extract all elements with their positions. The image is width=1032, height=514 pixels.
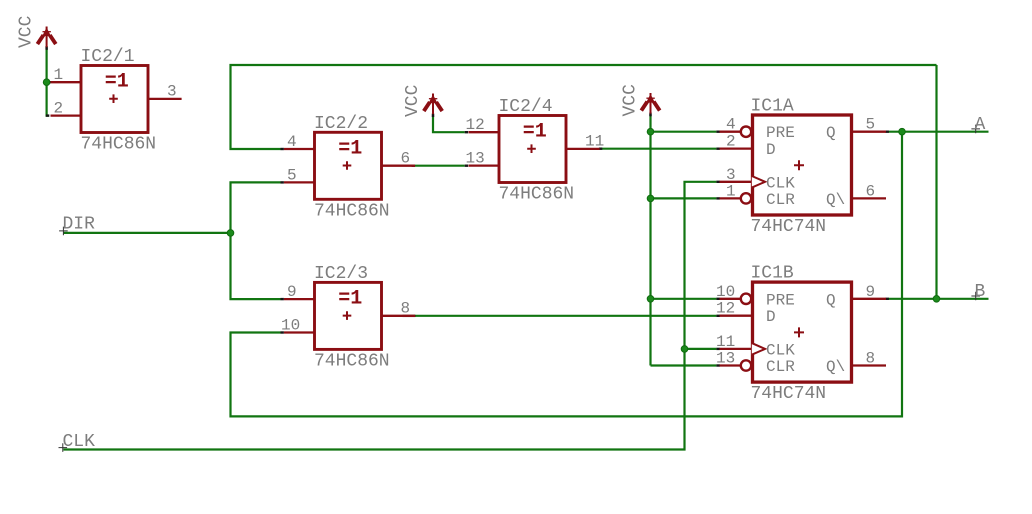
svg-text:IC2/4: IC2/4 [499, 97, 553, 117]
wire net VCC3 to IC1A CLR [651, 197, 717, 199]
D flip-flop IC1A (74HC74N) [753, 115, 852, 215]
pin stub pin 5 Q of IC1A [852, 131, 887, 133]
svg-text:=1: =1 [105, 71, 129, 94]
wire joint IC2/1 pin 1 joint [48, 81, 51, 83]
wire net from IC2/4 pin 11 to IC1A D [599, 148, 716, 150]
wire joint VCC2 wire top end [432, 114, 434, 117]
svg-text:6: 6 [866, 182, 876, 200]
clock wedge on CLK pin of IC1B [752, 343, 765, 355]
wire net B output segment to label B [889, 298, 989, 300]
xor mark + of IC2/1 [109, 94, 118, 103]
power symbol VCC supply 3 [641, 93, 659, 116]
wire joint IC2/4 pin 11 joint [599, 147, 602, 149]
inversion bubble on PRE pin of IC1B [741, 294, 751, 304]
pin stub pin 9 Q of IC1B [852, 298, 887, 300]
inversion bubble on CLR pin of IC1B [741, 360, 751, 370]
pin stub pin 4 of IC2/2 [284, 148, 315, 150]
svg-text:2: 2 [726, 133, 736, 151]
xor mark + of IC2/2 [343, 161, 352, 170]
svg-text:5: 5 [287, 166, 297, 184]
svg-text:11: 11 [585, 133, 604, 151]
pin stub pin 10 PRE of IC1B [720, 298, 742, 300]
pin stub pin 3 CLK of IC1A [720, 181, 753, 183]
pin stub pin 9 of IC2/3 [284, 298, 315, 300]
wire joint IC1A pin CLR joint [716, 197, 719, 199]
svg-text:12: 12 [466, 116, 485, 134]
label origin cross of net label B [971, 292, 980, 301]
svg-text:CLR: CLR [766, 191, 795, 209]
centre mark + of IC1B [794, 327, 804, 337]
pin stub pin 11 CLK of IC1B [720, 348, 753, 350]
wire net VCC1 vertical from VCC symbol to IC2/1 pins [47, 49, 49, 116]
svg-text:74HC86N: 74HC86N [314, 351, 390, 371]
svg-text:74HC86N: 74HC86N [499, 185, 575, 205]
svg-text:DIR: DIR [63, 215, 96, 235]
wire joint IC1A pin Q joint [886, 130, 889, 132]
wire net CLK branch to IC1B CLK [685, 348, 717, 350]
pin stub pin 13 CLR of IC1B [720, 364, 742, 366]
svg-text:3: 3 [726, 166, 736, 184]
svg-text:Q: Q [826, 124, 836, 142]
wire net from IC2/3 pin 8 to IC1B D [415, 315, 717, 317]
wire net CLK from label up to IC1A CLK [63, 182, 716, 450]
pin stub pin 1 CLR of IC1A [720, 197, 742, 199]
svg-text:12: 12 [716, 300, 735, 318]
svg-text:5: 5 [866, 116, 876, 134]
pin stub pin 11 of IC2/4 [566, 148, 600, 150]
svg-text:9: 9 [287, 283, 297, 301]
wire net from IC2/2 pin 6 to IC2/4 pin 13 [415, 165, 465, 167]
junction node A at IC1A Q [899, 128, 906, 135]
inversion bubble on CLR pin of IC1A [741, 193, 751, 203]
svg-text:VCC: VCC [17, 15, 37, 48]
svg-text:1: 1 [726, 182, 736, 200]
svg-text:Q\: Q\ [826, 358, 845, 376]
wire net B: top bus from feedback to IC2/2 pin 4 [231, 65, 937, 149]
svg-text:IC2/1: IC2/1 [81, 47, 135, 67]
power symbol VCC supply 1 [37, 27, 55, 50]
svg-text:B: B [975, 282, 986, 302]
svg-text:D: D [766, 141, 776, 159]
svg-text:IC1A: IC1A [751, 97, 794, 117]
wire joint IC1B pin CLK joint [716, 348, 719, 350]
svg-text:13: 13 [716, 350, 735, 368]
pin stub pin 4 PRE of IC1A [720, 131, 742, 133]
pin stub pin 10 of IC2/3 [284, 331, 315, 333]
xor mark + of IC2/4 [527, 144, 536, 153]
pin stub pin 8 Q\ of IC1B [852, 364, 887, 366]
svg-text:2: 2 [54, 100, 64, 118]
wire net B feedback vertical [935, 65, 937, 299]
wire net DIR horizontal from label to junction [63, 232, 230, 234]
wire joint IC2/3 pin 8 (overlap) [403, 315, 416, 317]
svg-text:IC2/2: IC2/2 [314, 114, 368, 134]
wire net VCC3 vertical [649, 115, 651, 365]
wire joint IC1B pin PRE joint [716, 298, 719, 300]
D flip-flop IC1B (74HC74N) [753, 282, 852, 382]
svg-text:74HC74N: 74HC74N [751, 384, 827, 404]
svg-text:CLK: CLK [766, 341, 795, 359]
wire joint IC2/2 pin 5 joint [281, 181, 284, 183]
svg-text:8: 8 [401, 300, 411, 318]
svg-text:D: D [766, 308, 776, 326]
inversion bubble on PRE pin of IC1A [741, 127, 751, 137]
wire joint IC2/2 pin 4 joint [281, 148, 284, 150]
wire joint IC2/4 pin 12 joint [465, 131, 468, 133]
wire joint IC1B pin Q joint [886, 298, 889, 300]
svg-text:=1: =1 [523, 121, 547, 144]
svg-text:74HC74N: 74HC74N [751, 217, 827, 237]
pin stub pin 6 Q\ of IC1A [852, 197, 887, 199]
svg-text:=1: =1 [338, 138, 362, 161]
svg-text:8: 8 [866, 350, 876, 368]
power symbol VCC supply 2 [424, 94, 442, 117]
label origin cross of net label DIR [59, 227, 68, 236]
junction node VCC3 at IC1B PRE [647, 296, 654, 303]
pin stub pin 6 of IC2/2 [382, 165, 416, 167]
svg-text:CLR: CLR [766, 358, 795, 376]
junction node VCC1 at IC2/1 pin 1 [43, 79, 50, 86]
junction node VCC3 at IC1A CLR [647, 195, 654, 202]
pin stub pin 13 of IC2/4 [469, 164, 500, 166]
svg-text:PRE: PRE [766, 124, 795, 142]
svg-text:13: 13 [466, 150, 485, 168]
wire net DIR to IC2/3 pin 9 [231, 233, 281, 299]
XOR gate IC2/2 (74HC86N) [315, 132, 382, 199]
wire joint IC1A pin D joint [716, 147, 719, 149]
svg-text:VCC: VCC [403, 84, 423, 117]
label origin cross of net label A [971, 125, 980, 134]
svg-text:Q\: Q\ [826, 191, 845, 209]
wire net A output segment to label A [889, 131, 989, 133]
svg-text:VCC: VCC [621, 84, 641, 117]
svg-text:IC1B: IC1B [751, 264, 794, 284]
svg-text:11: 11 [716, 333, 735, 351]
clock wedge on CLK pin of IC1A [752, 176, 765, 188]
svg-text:1: 1 [54, 66, 64, 84]
wire joint IC1B pin D joint [716, 315, 719, 317]
junction node B at feedback [933, 296, 940, 303]
xor mark + of IC2/3 [343, 311, 352, 320]
svg-text:PRE: PRE [766, 291, 795, 309]
wire net VCC2 from symbol to IC2/4 pin 12 [433, 116, 465, 132]
wire joint IC2/4 pin 13 joint [465, 164, 468, 166]
pin stub pin 3 of IC2/1 [148, 98, 182, 100]
wire joint IC1B pin CLR joint [716, 364, 719, 366]
svg-text:4: 4 [287, 133, 297, 151]
wire net VCC3 to IC1B CLR [651, 364, 717, 366]
junction node VCC3 at IC1A PRE [647, 128, 654, 135]
wire net VCC3 to IC1B PRE [651, 298, 717, 300]
wire net A feedback: IC1A Q down, across, up to IC2/3 pin 10 [231, 132, 903, 417]
svg-text:IC2/3: IC2/3 [314, 264, 368, 284]
svg-text:4: 4 [726, 116, 736, 134]
pin stub pin 2 D of IC1A [720, 147, 753, 149]
svg-text:3: 3 [167, 83, 177, 101]
pin stub pin 5 of IC2/2 [284, 181, 315, 183]
junction node CLK at IC1B CLK [681, 346, 688, 353]
wire joint VCC3 wire top end [649, 113, 651, 116]
svg-text:74HC86N: 74HC86N [81, 135, 157, 155]
XOR gate IC2/3 (74HC86N) [315, 282, 382, 349]
wire joint IC2/3 pin 10 joint [281, 331, 284, 333]
svg-text:CLK: CLK [63, 432, 96, 452]
svg-text:CLK: CLK [766, 174, 795, 192]
svg-text:10: 10 [716, 283, 735, 301]
XOR gate IC2/1 (74HC86N) [81, 66, 148, 133]
centre mark + of IC1A [794, 160, 804, 170]
wire joint IC1A pin CLK joint [716, 181, 719, 183]
XOR gate IC2/4 (74HC86N) [499, 116, 566, 183]
wire net DIR to IC2/2 pin 5 [231, 182, 281, 233]
svg-text:=1: =1 [338, 288, 362, 311]
svg-text:9: 9 [866, 283, 876, 301]
label origin cross of net label CLK [59, 443, 68, 452]
pin stub pin 8 of IC2/3 [382, 315, 416, 317]
svg-text:10: 10 [281, 317, 300, 335]
pin stub pin 12 of IC2/4 [469, 131, 500, 133]
svg-text:6: 6 [401, 150, 411, 168]
wire net VCC3 to IC1A PRE [651, 131, 717, 133]
wire joint VCC1 wire top end [45, 46, 47, 49]
pin stub pin 12 D of IC1B [720, 315, 753, 317]
svg-text:Q: Q [826, 291, 836, 309]
wire joint IC2/3 pin 9 joint [281, 298, 284, 300]
svg-text:74HC86N: 74HC86N [314, 201, 390, 221]
pin stub pin 2 of IC2/1 [51, 114, 82, 116]
wire joint IC1A pin PRE joint [716, 130, 719, 132]
wire joint IC2/2 pin 6 joint [412, 164, 415, 166]
svg-text:A: A [975, 115, 986, 135]
wire joint IC2/1 pin 2 corner joint [46, 114, 49, 116]
junction node DIR [227, 230, 234, 237]
pin stub pin 1 of IC2/1 [51, 81, 82, 83]
